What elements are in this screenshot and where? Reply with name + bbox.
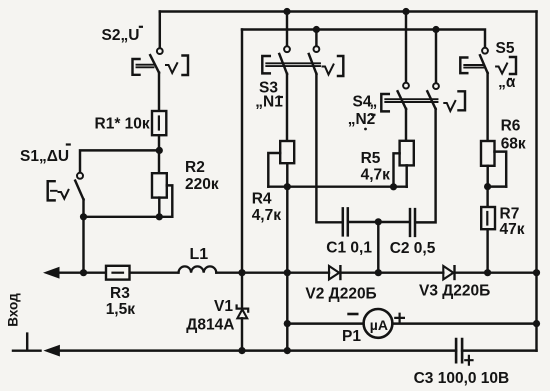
wire C1 to C2 bbox=[349, 221, 409, 223]
node junction mid rail right end bbox=[533, 269, 540, 276]
R5 wiper tab bbox=[394, 153, 400, 187]
node junction S4 right top bbox=[432, 26, 439, 33]
svg-text:V2 Д220Б: V2 Д220Б bbox=[305, 285, 376, 302]
switch S2 bbox=[133, 12, 189, 112]
wire R7 bottom bbox=[486, 229, 488, 273]
wire S2 to R1 bbox=[158, 73, 160, 111]
svg-text:С2 0,5: С2 0,5 bbox=[390, 240, 436, 257]
wire S1 leg down bbox=[82, 200, 84, 273]
S5 terminal circle bbox=[482, 48, 488, 54]
wire S3 left leg to R4 bbox=[286, 74, 288, 141]
diode V2 bbox=[329, 266, 340, 279]
S3 bracket left bbox=[262, 56, 270, 73]
V1 triangle bbox=[237, 309, 247, 318]
svg-text:Р1: Р1 bbox=[342, 328, 361, 345]
svg-text:V1: V1 bbox=[214, 298, 233, 315]
svg-text:R4: R4 bbox=[252, 190, 272, 207]
svg-text:С3 100,0 10В: С3 100,0 10В bbox=[414, 370, 510, 387]
wire right rail bbox=[535, 12, 537, 351]
node arrow left on bottom rail bbox=[45, 345, 60, 355]
node junction L1 / box left bbox=[238, 269, 245, 276]
zener V1 bbox=[237, 273, 249, 355]
wire V1 bottom bbox=[241, 318, 243, 350]
wire bottom rail left of C3 bbox=[59, 349, 456, 351]
inductor L1 bbox=[179, 266, 217, 272]
wire S2 stem top bbox=[159, 12, 161, 49]
label V1 bbox=[186, 298, 234, 334]
wire mid link rail bbox=[287, 185, 406, 187]
S2 lever bbox=[150, 55, 159, 72]
svg-text:„α: „α bbox=[498, 74, 516, 91]
label R4 bbox=[252, 190, 282, 224]
node junction R5 tab bbox=[390, 183, 397, 190]
svg-text:4,7к: 4,7к bbox=[252, 207, 282, 224]
capacitor C2 bbox=[410, 209, 415, 236]
S5 lever bbox=[480, 55, 488, 73]
S2 bracket right bbox=[183, 56, 189, 76]
P1 circle bbox=[364, 309, 393, 338]
resistor R1 bbox=[152, 111, 166, 135]
resistor R6 bbox=[481, 141, 506, 190]
node input terminal mark bbox=[13, 334, 41, 351]
resistor R7 bbox=[481, 207, 495, 229]
S4 latch v bbox=[444, 101, 455, 111]
capacitor C1 bbox=[343, 208, 348, 235]
svg-text:Д814А: Д814А bbox=[186, 317, 234, 334]
wire meter rail right bbox=[392, 322, 536, 324]
wire R1 to R2 bbox=[158, 135, 160, 173]
wire meter shunt vertical bbox=[286, 187, 288, 351]
S1 actuator tick bbox=[51, 190, 57, 192]
node junction S4 left top bbox=[402, 8, 409, 15]
label R3 bbox=[106, 285, 136, 318]
R6 wiper tab bbox=[495, 152, 507, 187]
S4 lever left bbox=[398, 91, 406, 109]
node junction V1 bottom bbox=[238, 347, 245, 354]
S1 terminal circle bbox=[77, 173, 83, 179]
wire to S1 bbox=[80, 150, 159, 172]
wire S4 left stem bbox=[405, 12, 407, 83]
wire S3 right stem bbox=[315, 30, 317, 47]
node junction R1-R2 bbox=[156, 147, 163, 154]
switch S3 bbox=[262, 8, 343, 76]
switch S1 bbox=[48, 173, 87, 277]
wire R2 bottom bbox=[84, 198, 173, 217]
S1 lever bbox=[75, 181, 83, 200]
S4 left terminal circle bbox=[403, 83, 409, 89]
wire inner box left edge bbox=[241, 30, 243, 273]
wire bottom rail right of C3 bbox=[462, 349, 536, 351]
svg-text:„N2: „N2 bbox=[348, 111, 376, 128]
S3 lever left bbox=[279, 54, 287, 74]
svg-text:R6: R6 bbox=[501, 118, 521, 135]
svg-text:µА: µА bbox=[370, 317, 388, 333]
svg-text:47к: 47к bbox=[500, 221, 525, 238]
S4 right terminal circle bbox=[433, 83, 439, 89]
node junction S1 on mid rail bbox=[80, 269, 87, 276]
wire S5 leg to R6 bbox=[486, 73, 488, 141]
svg-text:R2: R2 bbox=[185, 159, 205, 176]
switch S5 bbox=[460, 48, 516, 74]
svg-text:S5: S5 bbox=[496, 40, 515, 57]
C3 plus sign bbox=[465, 356, 472, 365]
wire R6 to R7 bbox=[486, 187, 488, 207]
node junction R2 bottom bbox=[156, 213, 163, 220]
node junction R7 on mid rail bbox=[484, 269, 491, 276]
S4 bracket left bbox=[381, 94, 389, 111]
wire R6 bottom bbox=[488, 166, 507, 187]
node junction on mid rail below caps bbox=[375, 269, 382, 276]
S3 actuator double bar bbox=[266, 63, 320, 66]
svg-text:220к: 220к bbox=[185, 176, 219, 193]
S2 actuator double bar bbox=[137, 65, 154, 68]
S3 bracket right bbox=[338, 56, 343, 76]
label S4 bbox=[348, 93, 378, 128]
P1 plus sign bbox=[395, 314, 404, 322]
resistor R2 bbox=[84, 173, 173, 220]
wire R5 bottom bbox=[405, 165, 407, 186]
wire S3 left stem bbox=[286, 12, 288, 47]
svg-text:R1* 10к: R1* 10к bbox=[95, 115, 150, 132]
wire V1 top bbox=[241, 273, 243, 307]
S3 right terminal circle bbox=[314, 46, 320, 52]
wire main mid rail segments bbox=[58, 271, 106, 273]
S4 actuator double bar bbox=[385, 99, 437, 102]
label R5 bbox=[361, 150, 391, 183]
S3 latch v bbox=[323, 65, 334, 75]
R2 wiper tab bbox=[167, 185, 173, 216]
resistor R3 bbox=[106, 266, 130, 280]
svg-text:R3: R3 bbox=[110, 285, 130, 302]
wire meter rail left bbox=[287, 322, 363, 324]
meter P1 bbox=[287, 309, 540, 338]
label R2 bbox=[185, 159, 219, 193]
capacitor C3 bbox=[456, 339, 472, 365]
resistor R4 bbox=[268, 141, 294, 190]
wire R4 bottom bbox=[268, 163, 287, 187]
label S5 bbox=[496, 40, 516, 91]
S1 latch v bbox=[59, 190, 69, 199]
label R6 bbox=[501, 118, 526, 153]
svg-text:Вход: Вход bbox=[6, 293, 21, 327]
wire second rail (inner box top) bbox=[242, 30, 485, 48]
svg-text:4,7к: 4,7к bbox=[361, 166, 391, 183]
wire S4 left leg to R5 bbox=[405, 109, 407, 141]
S3 lever right bbox=[309, 54, 317, 74]
label S1 bbox=[20, 145, 71, 165]
wire C junction down to mid rail bbox=[377, 222, 379, 273]
node junction S3 left top bbox=[283, 8, 290, 15]
svg-text:L1: L1 bbox=[190, 246, 209, 263]
S5 bracket left bbox=[460, 58, 467, 74]
svg-text:S1„ΔU: S1„ΔU bbox=[20, 148, 69, 165]
wire S3 right leg to C1 bbox=[316, 74, 341, 223]
node junction C1-C2 bbox=[375, 218, 382, 225]
svg-text:S2„U: S2„U bbox=[102, 27, 140, 44]
wire top rail bbox=[160, 10, 537, 12]
S2 latch v bbox=[166, 63, 177, 73]
P1 minus sign bbox=[349, 313, 358, 316]
S5 bracket right bbox=[510, 57, 516, 74]
svg-text:„: „ bbox=[370, 93, 378, 110]
switch S4 bbox=[381, 8, 465, 112]
R4 wiper tab bbox=[268, 153, 280, 187]
node junction R4 bottom bbox=[284, 183, 291, 190]
S4 lever right bbox=[427, 91, 435, 109]
node junction shunt on meter rail bbox=[284, 320, 291, 327]
label R7 bbox=[500, 206, 525, 238]
node arrow left on mid rail bbox=[45, 268, 60, 278]
node junction meter rail right end bbox=[533, 320, 540, 327]
node junction shunt on bottom rail bbox=[284, 347, 291, 354]
svg-text:68к: 68к bbox=[501, 135, 526, 152]
label S3 bbox=[255, 79, 283, 110]
node junction S1-R2 bottom bbox=[80, 213, 87, 220]
svg-text:R5: R5 bbox=[361, 150, 381, 167]
node junction R6 bottom bbox=[484, 183, 491, 190]
diode V3 bbox=[443, 266, 454, 279]
node junction shunt on mid rail bbox=[284, 269, 291, 276]
label S2 bbox=[102, 27, 144, 44]
wire S4 right stem bbox=[435, 30, 437, 84]
V1 cathode bar with hooks bbox=[237, 306, 249, 312]
node junction S3 right top bbox=[313, 26, 320, 33]
resistor R5 bbox=[390, 141, 414, 191]
wire C2 to S4 right leg bbox=[416, 109, 435, 222]
S2 terminal circle bbox=[157, 48, 163, 54]
S5 latch v bbox=[496, 64, 507, 74]
svg-text:С1 0,1: С1 0,1 bbox=[326, 240, 372, 257]
svg-text:1,5к: 1,5к bbox=[106, 301, 136, 318]
S1 bracket left bbox=[48, 181, 55, 200]
S5 actuator double bar bbox=[464, 65, 484, 68]
svg-text:V3 Д220Б: V3 Д220Б bbox=[419, 282, 490, 299]
S4 bracket right bbox=[459, 91, 466, 110]
S3 left terminal circle bbox=[284, 46, 290, 52]
S2 bracket left bbox=[133, 59, 140, 75]
